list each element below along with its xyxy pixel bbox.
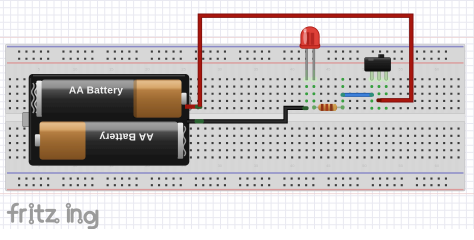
switch leg halos (row a) [368, 76, 389, 82]
top power rail [7, 47, 464, 63]
svg-text:25: 25 [181, 66, 186, 71]
svg-text:35: 35 [254, 66, 259, 71]
LED legs [306, 48, 315, 80]
black wire from battery negative to breadboard [187, 108, 304, 122]
svg-text:15: 15 [109, 66, 114, 71]
bottom power rail [7, 173, 464, 190]
red wire stub from battery positive [185, 104, 202, 108]
red wire loop from battery + to switch middle pin [200, 16, 411, 107]
svg-text:AA Battery: AA Battery [99, 130, 153, 141]
switch S1 slide switch body [365, 54, 391, 71]
resistor R1 lead end caps (green) [312, 105, 345, 109]
battery holder BT1 [23, 74, 191, 166]
blue wire from c47 to c51 (switch left pin column) [343, 93, 372, 97]
LED leg halos (row a) [303, 76, 317, 82]
svg-text:40: 40 [290, 163, 295, 168]
breadboard [6, 44, 465, 191]
svg-text:45: 45 [326, 163, 331, 168]
resistor R1 leads [313, 106, 345, 108]
black wire end cap in hole e42 [302, 106, 308, 110]
svg-text:60: 60 [435, 66, 440, 71]
red wire junction cap (green, connected) [195, 105, 203, 109]
svg-text:45: 45 [326, 66, 331, 71]
svg-text:55: 55 [398, 66, 403, 71]
battery B2 (bottom AA, flipped) [35, 122, 186, 160]
svg-text:30: 30 [218, 66, 223, 71]
svg-text:AA Battery: AA Battery [69, 86, 123, 97]
svg-text:10: 10 [73, 66, 78, 71]
svg-text:30: 30 [218, 163, 223, 168]
battery B1 (top AA) [32, 80, 187, 118]
breadboard main holes [9, 78, 460, 158]
svg-text:55: 55 [398, 163, 403, 168]
svg-text:40: 40 [290, 66, 295, 71]
red wire end cap in hole d52 [376, 98, 381, 102]
svg-text:20: 20 [145, 66, 150, 71]
svg-text:50: 50 [362, 163, 367, 168]
LED LED1 red 5mm body [300, 27, 320, 49]
switch S1 legs [370, 71, 387, 81]
resistor R1 body [318, 104, 337, 111]
fritzing logo [8, 204, 97, 228]
svg-text:60: 60 [435, 163, 440, 168]
black wire junction cap at battery (green, connected) [195, 119, 204, 123]
blue wire end caps (teal, connected) [341, 93, 375, 97]
svg-text:35: 35 [254, 163, 259, 168]
connected strip holes (green) [305, 78, 388, 110]
